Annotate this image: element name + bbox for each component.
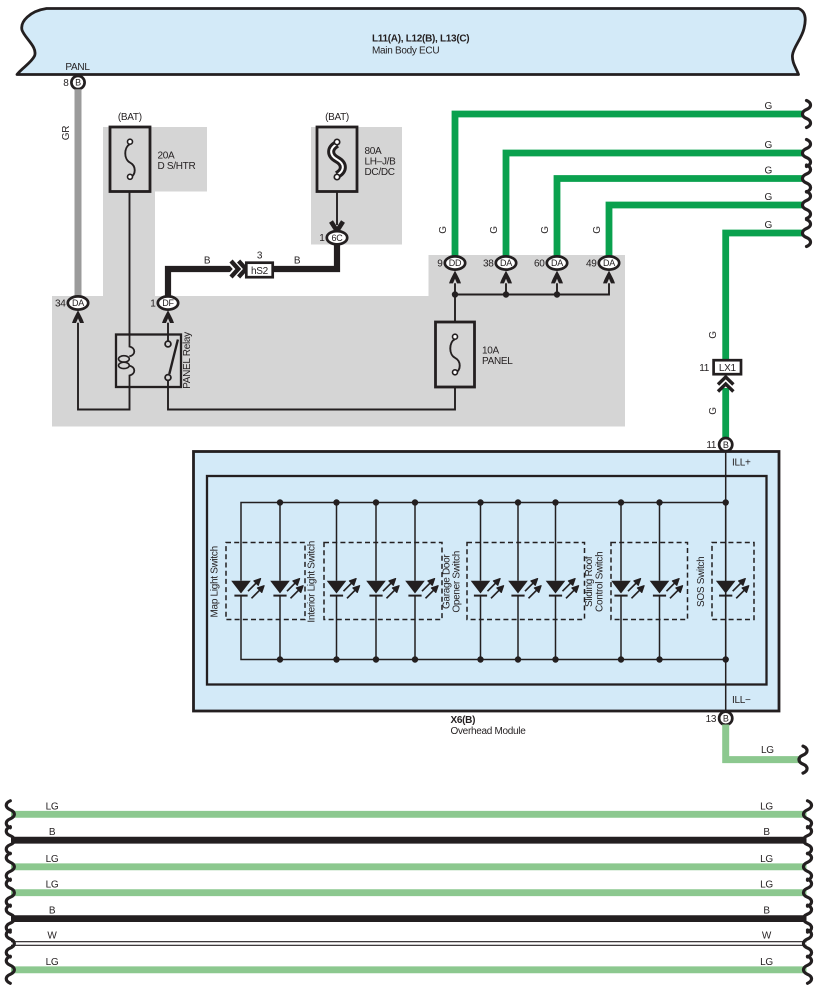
svg-text:(BAT): (BAT) bbox=[118, 112, 142, 123]
svg-text:G: G bbox=[765, 166, 773, 177]
fuse 20A D S/HTR bbox=[110, 127, 150, 192]
wire 20A fuse to relay coil bbox=[129, 192, 131, 335]
svg-text:DA: DA bbox=[500, 258, 512, 268]
junction dot bbox=[618, 656, 624, 662]
wire LED column bbox=[620, 503, 622, 660]
svg-text:ILL+: ILL+ bbox=[732, 458, 751, 469]
svg-text:hS2: hS2 bbox=[251, 266, 269, 277]
junction dot bbox=[723, 499, 729, 505]
torn left end LG bbox=[6, 879, 14, 906]
arrow under 38 DA bbox=[500, 271, 512, 284]
junction dot bbox=[277, 499, 283, 505]
connector 1 6C bbox=[319, 231, 347, 244]
fusible link 80A LH-J/B DC/DC bbox=[317, 127, 357, 192]
svg-text:SOS Switch: SOS Switch bbox=[696, 557, 707, 607]
top bus wire bbox=[241, 503, 726, 581]
svg-text:DA: DA bbox=[603, 258, 615, 268]
LED D9 bbox=[611, 579, 644, 599]
connector 34 DA bbox=[55, 296, 88, 309]
torn left end B bbox=[6, 905, 14, 932]
bottom bus wire bbox=[241, 596, 726, 660]
connector 49 DA bbox=[586, 256, 619, 269]
splice hS2 bbox=[246, 251, 272, 278]
LED D8 bbox=[546, 579, 579, 599]
wire ILL feed inside module bbox=[725, 452, 727, 713]
svg-text:G: G bbox=[765, 220, 773, 231]
LED D11 bbox=[716, 579, 749, 599]
torn end of wire G3 bbox=[802, 165, 810, 192]
svg-text:G: G bbox=[765, 101, 773, 112]
switch box: Garage Door Opener Switch bbox=[467, 543, 585, 620]
svg-text:49: 49 bbox=[586, 259, 597, 270]
svg-text:13: 13 bbox=[706, 714, 717, 725]
wire 10A fuse to connector bus bbox=[455, 283, 609, 322]
junction dot bbox=[552, 499, 558, 505]
gray harness shading behind 20A fuse bbox=[103, 127, 207, 296]
svg-text:DF: DF bbox=[162, 298, 174, 308]
LED D6 bbox=[471, 579, 504, 599]
arrow under 34 DA bbox=[72, 310, 84, 323]
svg-text:LG: LG bbox=[760, 880, 773, 891]
splice chevrons on wire B bbox=[231, 261, 246, 277]
junction dot bbox=[723, 656, 729, 662]
svg-text:B: B bbox=[294, 256, 301, 267]
svg-text:10A: 10A bbox=[482, 346, 500, 357]
svg-text:20A: 20A bbox=[158, 151, 176, 162]
svg-text:GR: GR bbox=[61, 126, 72, 140]
svg-text:LG: LG bbox=[760, 957, 773, 968]
wire LG from pin 13 B to right edge bbox=[726, 725, 801, 760]
svg-text:G: G bbox=[765, 140, 773, 151]
torn left end LG bbox=[6, 853, 14, 880]
junction dot bbox=[503, 291, 509, 297]
junction dot bbox=[412, 499, 418, 505]
junction dot bbox=[554, 291, 560, 297]
wire G from LX1 chevrons to pin 11 B bbox=[722, 388, 729, 439]
wire W horizontal bbox=[11, 942, 807, 946]
svg-text:80A: 80A bbox=[365, 146, 383, 157]
svg-text:DA: DA bbox=[72, 298, 84, 308]
connector 9 DD bbox=[437, 256, 465, 269]
wire B horizontal bbox=[11, 915, 807, 922]
svg-text:X6(B): X6(B) bbox=[451, 715, 476, 726]
junction dot bbox=[333, 499, 339, 505]
LED D2 bbox=[270, 579, 303, 599]
svg-text:Opener Switch: Opener Switch bbox=[452, 551, 463, 613]
connector 1 DF bbox=[150, 296, 178, 309]
junction dot bbox=[373, 499, 379, 505]
Main Body ECU block L11(A) L12(B) L13(C) bbox=[17, 9, 805, 75]
svg-text:LG: LG bbox=[760, 854, 773, 865]
arrow under 60 DA bbox=[551, 271, 563, 284]
wire G from 49 DA to right edge bbox=[609, 205, 804, 258]
LED D3 bbox=[327, 579, 360, 599]
svg-text:B: B bbox=[763, 827, 770, 838]
svg-text:LH–J/B: LH–J/B bbox=[365, 157, 397, 168]
svg-text:Garage Door: Garage Door bbox=[441, 554, 452, 609]
svg-text:B: B bbox=[75, 78, 81, 88]
wire G from 9 DD to right edge bbox=[455, 114, 804, 258]
svg-text:LG: LG bbox=[46, 880, 59, 891]
svg-text:9: 9 bbox=[437, 259, 443, 270]
torn left end W bbox=[6, 930, 14, 957]
LED D4 bbox=[366, 579, 399, 599]
svg-text:G: G bbox=[540, 226, 551, 234]
svg-text:B: B bbox=[49, 906, 56, 917]
svg-text:38: 38 bbox=[483, 259, 494, 270]
svg-text:Sliding Roof: Sliding Roof bbox=[584, 556, 595, 607]
svg-text:B: B bbox=[723, 714, 729, 724]
wire LG horizontal bbox=[11, 863, 807, 870]
torn right end LG bbox=[803, 879, 811, 906]
thick wire B from DF to hS2 to 6C bbox=[168, 269, 246, 297]
torn right end LG bbox=[803, 956, 811, 983]
svg-text:11: 11 bbox=[699, 363, 710, 374]
wire LG horizontal bbox=[11, 966, 807, 973]
svg-text:W: W bbox=[762, 931, 772, 942]
junction dot bbox=[277, 656, 283, 662]
wire G from 38 DA to right edge bbox=[506, 153, 804, 258]
svg-text:Control Switch: Control Switch bbox=[594, 552, 605, 612]
wire LED column bbox=[555, 503, 557, 660]
svg-text:1: 1 bbox=[319, 233, 325, 244]
svg-text:G: G bbox=[592, 226, 603, 234]
junction dot bbox=[452, 291, 458, 297]
junction dot bbox=[656, 499, 662, 505]
junction dot bbox=[477, 656, 483, 662]
wire LED column bbox=[659, 503, 661, 660]
module pin 13 B bbox=[706, 712, 733, 725]
torn end of wire G2 bbox=[802, 140, 810, 167]
torn right end B bbox=[803, 827, 811, 854]
svg-text:W: W bbox=[47, 931, 57, 942]
LED D5 bbox=[405, 579, 438, 599]
svg-text:PANEL Relay: PANEL Relay bbox=[182, 332, 193, 389]
torn right end LG bbox=[803, 853, 811, 880]
wire GR (gray) from pin 8 to 34 DA bbox=[75, 89, 82, 296]
wire relay coil to 34 DA bbox=[78, 323, 130, 410]
wire LED column bbox=[414, 503, 416, 660]
svg-text:L11(A), L12(B), L13(C): L11(A), L12(B), L13(C) bbox=[372, 34, 469, 45]
LED D7 bbox=[508, 579, 541, 599]
wire LED column bbox=[375, 503, 377, 660]
switch box: Map Light Switch bbox=[226, 543, 305, 620]
wire LG horizontal bbox=[11, 811, 807, 818]
wire G from 60 DA to right edge bbox=[557, 179, 804, 258]
svg-text:60: 60 bbox=[534, 259, 545, 270]
svg-text:1: 1 bbox=[150, 299, 156, 310]
svg-text:DA: DA bbox=[551, 258, 563, 268]
svg-text:LG: LG bbox=[46, 801, 59, 812]
switch box: SOS Switch bbox=[712, 543, 754, 620]
svg-text:LG: LG bbox=[760, 801, 773, 812]
junction dot bbox=[477, 499, 483, 505]
connector 11 LX1 bbox=[699, 360, 741, 374]
connector 38 DA bbox=[483, 256, 516, 269]
torn left end B bbox=[6, 827, 14, 854]
junction dot bbox=[515, 656, 521, 662]
svg-text:G: G bbox=[708, 407, 719, 415]
svg-text:(BAT): (BAT) bbox=[325, 112, 349, 123]
wire B horizontal bbox=[11, 837, 807, 844]
svg-text:34: 34 bbox=[55, 299, 66, 310]
wire LED column bbox=[279, 503, 281, 660]
torn end of wire G1 bbox=[802, 101, 810, 128]
torn right end W bbox=[803, 930, 811, 957]
module pin 11 B bbox=[706, 438, 732, 451]
wire LED column bbox=[480, 503, 482, 660]
junction dot bbox=[412, 656, 418, 662]
svg-text:LX1: LX1 bbox=[719, 363, 737, 374]
fuse 10A PANEL bbox=[436, 322, 475, 387]
ECU pin 8 connector B bbox=[63, 76, 84, 89]
arrow under 49 DA bbox=[603, 271, 615, 284]
torn right end LG bbox=[803, 801, 811, 828]
svg-text:B: B bbox=[763, 906, 770, 917]
svg-text:D S/HTR: D S/HTR bbox=[158, 161, 196, 172]
svg-text:11: 11 bbox=[706, 440, 717, 451]
svg-text:G: G bbox=[489, 226, 500, 234]
junction dot bbox=[515, 499, 521, 505]
junction dot bbox=[552, 656, 558, 662]
LED D10 bbox=[650, 579, 683, 599]
gray harness shading main band bbox=[52, 255, 625, 427]
svg-text:ILL−: ILL− bbox=[732, 695, 751, 706]
arrow under 9 DD bbox=[449, 271, 461, 284]
svg-text:Main Body ECU: Main Body ECU bbox=[372, 46, 439, 57]
wire LED column bbox=[336, 503, 338, 660]
junction dot bbox=[618, 499, 624, 505]
wire relay contact to 10A PANEL fuse bbox=[168, 380, 455, 409]
svg-text:6C: 6C bbox=[332, 233, 344, 243]
torn end of LG wire bbox=[799, 746, 807, 773]
svg-text:LG: LG bbox=[761, 745, 774, 756]
svg-text:DC/DC: DC/DC bbox=[365, 167, 395, 178]
svg-text:G: G bbox=[438, 226, 449, 234]
torn left end LG bbox=[6, 956, 14, 983]
junction dot bbox=[333, 656, 339, 662]
wire G from right edge to LX1 bbox=[726, 233, 804, 361]
connector 60 DA bbox=[534, 256, 567, 269]
torn right end B bbox=[803, 905, 811, 932]
wire DF to relay contact bbox=[167, 323, 169, 341]
gray harness shading behind 80A fuse and 6C bbox=[311, 127, 402, 245]
svg-text:LG: LG bbox=[46, 957, 59, 968]
arrow under 1 DF bbox=[162, 310, 174, 323]
svg-text:PANL: PANL bbox=[65, 62, 90, 73]
torn end of wire G4 bbox=[802, 192, 810, 219]
svg-text:B: B bbox=[204, 256, 211, 267]
switch box: Interior Light Switch bbox=[324, 543, 442, 620]
svg-text:B: B bbox=[49, 827, 56, 838]
svg-text:G: G bbox=[765, 192, 773, 203]
svg-text:B: B bbox=[723, 440, 729, 450]
torn end of wire G5 bbox=[802, 220, 810, 247]
wire LG horizontal bbox=[11, 889, 807, 896]
svg-text:Map Light Switch: Map Light Switch bbox=[210, 546, 221, 617]
svg-text:8: 8 bbox=[63, 78, 69, 89]
Overhead Module X6(B) block bbox=[194, 452, 780, 712]
junction dot bbox=[373, 656, 379, 662]
arrow into 6C bbox=[331, 222, 343, 232]
switch box: Sliding Roof Control Switch bbox=[611, 543, 688, 620]
wire LED column bbox=[517, 503, 519, 660]
svg-text:Interior Light Switch: Interior Light Switch bbox=[307, 541, 318, 623]
LED D1 bbox=[231, 579, 264, 599]
svg-text:3: 3 bbox=[257, 251, 263, 262]
wire LED column bbox=[725, 503, 727, 660]
svg-text:Overhead Module: Overhead Module bbox=[451, 726, 527, 737]
wire from 80A fusible link to 6C bbox=[336, 192, 338, 226]
svg-text:G: G bbox=[708, 331, 719, 339]
torn left end LG bbox=[6, 801, 14, 828]
junction dot bbox=[656, 656, 662, 662]
chevrons below LX1 bbox=[718, 377, 733, 392]
svg-text:PANEL: PANEL bbox=[482, 356, 513, 367]
svg-text:DD: DD bbox=[449, 258, 462, 268]
PANEL Relay bbox=[116, 335, 181, 388]
svg-text:LG: LG bbox=[46, 854, 59, 865]
